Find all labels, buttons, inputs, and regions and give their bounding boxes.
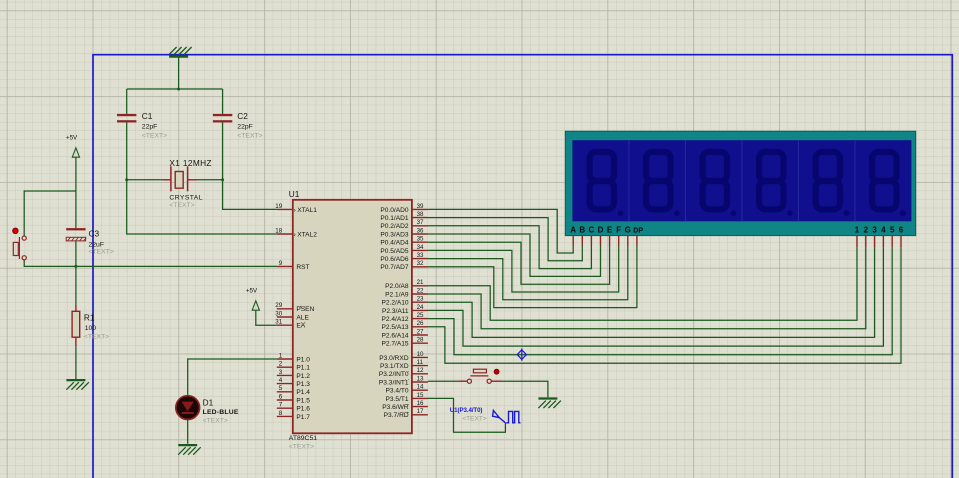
svg-text:RST: RST	[296, 264, 309, 271]
svg-text:AT89C51: AT89C51	[289, 435, 317, 442]
svg-text:CRYSTAL: CRYSTAL	[169, 195, 203, 202]
svg-text:P0.0/AD0: P0.0/AD0	[380, 207, 409, 214]
svg-text:<TEXT>: <TEXT>	[89, 249, 114, 256]
svg-text:U1(P3.4/T0): U1(P3.4/T0)	[450, 407, 483, 414]
svg-text:B: B	[579, 226, 585, 235]
svg-text:P3.3/INT1: P3.3/INT1	[379, 379, 409, 386]
svg-text:31: 31	[275, 319, 282, 326]
wire P0.1 to display segment B	[428, 218, 582, 261]
svg-text:P2.3/A11: P2.3/A11	[382, 308, 409, 315]
U1 left pin lines	[277, 209, 293, 416]
svg-text:P2.2/A10: P2.2/A10	[381, 300, 408, 307]
junction	[74, 265, 77, 268]
svg-text:P2.5/A13: P2.5/A13	[381, 324, 408, 331]
wire button SW2 to ground	[502, 381, 548, 397]
svg-text:11: 11	[417, 359, 424, 366]
svg-text:26: 26	[417, 320, 424, 327]
wire ground stem to C1/C2 net	[178, 57, 180, 90]
LED D1	[176, 396, 200, 420]
wire crystal right lead	[198, 179, 223, 181]
svg-text:19: 19	[275, 203, 282, 210]
wire LED to ground	[187, 420, 189, 444]
wire P0.3 to display segment D	[428, 234, 601, 276]
svg-text:27: 27	[417, 328, 424, 335]
svg-text:P1.0: P1.0	[296, 356, 310, 363]
svg-text:16: 16	[417, 400, 424, 407]
display digit 5 segments	[816, 152, 840, 210]
svg-text:P0.1/AD1: P0.1/AD1	[380, 215, 409, 222]
junction	[177, 88, 180, 91]
crystal X1	[162, 166, 197, 191]
svg-text:P3.6/WR: P3.6/WR	[382, 404, 409, 411]
wire C3 bottom to RST/R1	[75, 242, 77, 306]
svg-text:+5V: +5V	[66, 134, 78, 141]
7-segment display module (6 digit)	[565, 131, 915, 235]
svg-text:P3.2/INT0: P3.2/INT0	[379, 371, 409, 378]
wire P2.2 to display digit 3	[428, 247, 875, 337]
svg-text:P0.2/AD2: P0.2/AD2	[380, 223, 409, 230]
svg-text:1: 1	[279, 352, 283, 359]
wire P2.1 to display digit 2	[428, 247, 866, 328]
svg-text:P2.1/A9: P2.1/A9	[385, 291, 409, 298]
svg-text:<TEXT>: <TEXT>	[237, 132, 262, 139]
power +5V	[246, 287, 259, 310]
svg-text:C: C	[589, 226, 595, 235]
svg-text:P3.5/T1: P3.5/T1	[386, 396, 409, 403]
svg-text:6: 6	[279, 393, 283, 400]
svg-text:2: 2	[279, 361, 283, 368]
wire XTAL1 net (C2 to U1 pin 19)	[223, 122, 277, 209]
svg-text:C3: C3	[89, 228, 100, 238]
svg-text:P0.7/AD7: P0.7/AD7	[380, 264, 409, 271]
svg-text:32: 32	[417, 260, 424, 267]
wire P0.4 to display segment E	[428, 242, 610, 284]
svg-text:15: 15	[417, 392, 424, 399]
svg-text:EA: EA	[296, 323, 305, 330]
svg-text:U1: U1	[289, 189, 300, 199]
wire P0.0 to display segment A	[428, 209, 573, 253]
svg-text:P3.4/T0: P3.4/T0	[386, 388, 409, 395]
svg-text:DP: DP	[633, 226, 643, 235]
svg-text:›: ›	[294, 207, 296, 214]
svg-text:P1.2: P1.2	[296, 373, 310, 380]
svg-text:4: 4	[279, 377, 283, 384]
ground	[66, 380, 89, 390]
capacitor C3	[66, 228, 86, 241]
svg-text:P0.4/AD4: P0.4/AD4	[380, 240, 409, 247]
wire crystal left lead	[127, 179, 163, 181]
svg-text:22: 22	[417, 287, 424, 294]
svg-text:5: 5	[890, 226, 895, 235]
svg-text:23: 23	[417, 296, 424, 303]
svg-text:4: 4	[881, 226, 886, 235]
clock generator DCLOCK	[493, 410, 521, 422]
wire XTAL2 net (C1 to U1 pin 18)	[127, 122, 277, 234]
svg-text:<TEXT>: <TEXT>	[462, 416, 486, 423]
svg-text:E: E	[607, 226, 613, 235]
svg-text:+5V: +5V	[246, 287, 258, 294]
wire P0.5 to display segment F	[428, 246, 619, 293]
svg-text:28: 28	[417, 337, 424, 344]
wire R1 to ground	[75, 346, 77, 379]
svg-text:18: 18	[275, 227, 282, 234]
svg-text:P3.1/TXD: P3.1/TXD	[380, 363, 409, 370]
svg-text:13: 13	[417, 375, 424, 382]
display segment pin stubs	[573, 236, 637, 246]
ground	[538, 399, 561, 409]
svg-text:XTAL1: XTAL1	[297, 207, 317, 214]
ground	[178, 445, 201, 455]
display digit 2 segments	[646, 152, 670, 210]
capacitor C1	[117, 114, 136, 123]
svg-text:22pF: 22pF	[237, 124, 253, 131]
svg-text:3: 3	[872, 226, 877, 235]
svg-text:LED-BLUE: LED-BLUE	[203, 409, 239, 416]
svg-text:7: 7	[279, 402, 283, 409]
svg-text:›: ›	[294, 231, 296, 238]
svg-text:P3.0/RXD: P3.0/RXD	[379, 355, 409, 362]
svg-text:22uF: 22uF	[89, 241, 105, 248]
svg-text:P2.7/A15: P2.7/A15	[381, 341, 408, 348]
svg-text:P2.6/A14: P2.6/A14	[381, 332, 408, 339]
wire C2 top lead	[222, 89, 224, 114]
push button SW2 (INT1)	[458, 369, 502, 383]
svg-text:37: 37	[417, 219, 424, 226]
wire P2.0 to display digit 1	[428, 247, 857, 320]
display digit pin stubs	[857, 236, 901, 248]
svg-text:<TEXT>: <TEXT>	[203, 417, 228, 424]
svg-text:P0.6/AD6: P0.6/AD6	[380, 256, 409, 263]
svg-text:36: 36	[417, 227, 424, 234]
svg-text:6: 6	[899, 226, 904, 235]
svg-text:8: 8	[279, 410, 283, 417]
svg-text:25: 25	[417, 312, 424, 319]
display digit 6 segments	[872, 152, 896, 210]
svg-text:12: 12	[417, 367, 424, 374]
display segment pin letters ABCDEFG DP	[570, 226, 643, 235]
svg-text:R1: R1	[84, 312, 95, 322]
svg-text:XTAL2: XTAL2	[297, 231, 317, 238]
svg-text:P1.4: P1.4	[296, 389, 310, 396]
svg-text:PSEN: PSEN	[296, 306, 314, 313]
display digit separators	[629, 140, 855, 221]
wire P2.5 to display digit 6	[428, 247, 901, 363]
svg-text:22pF: 22pF	[142, 124, 158, 131]
wire +5V to EA pin 31	[256, 310, 277, 325]
svg-text:21: 21	[417, 279, 424, 286]
junction	[221, 178, 224, 181]
svg-text:<TEXT>: <TEXT>	[142, 132, 167, 139]
wire P0.7 to display segment DP	[428, 246, 637, 308]
U1 right pin numbers	[417, 203, 424, 415]
ground	[169, 47, 192, 57]
svg-text:A: A	[570, 226, 576, 235]
capacitor C2	[213, 114, 232, 123]
svg-text:P3.7/RD: P3.7/RD	[384, 412, 409, 419]
svg-text:33: 33	[417, 252, 424, 259]
svg-text:P2.0/A8: P2.0/A8	[385, 283, 409, 290]
svg-text:C2: C2	[237, 111, 248, 121]
wire P2.4 to display digit 5	[428, 247, 892, 354]
svg-text:3: 3	[279, 369, 283, 376]
svg-text:39: 39	[417, 203, 424, 210]
svg-text:<TEXT>: <TEXT>	[289, 444, 314, 451]
svg-text:G: G	[625, 226, 631, 235]
push button SW1 (reset)	[13, 228, 27, 260]
svg-text:P0.3/AD3: P0.3/AD3	[380, 231, 409, 238]
U1 left pin labels	[294, 207, 318, 421]
node marker (blue diamond)	[517, 348, 526, 360]
wire C1 top lead	[126, 89, 128, 114]
op-amp U1 AT89C51 body	[293, 200, 412, 433]
U1 right pin lines	[412, 209, 428, 414]
display digit 4 segments	[759, 152, 783, 210]
svg-text:14: 14	[417, 384, 424, 391]
wire P2.3 to display digit 4	[428, 247, 884, 346]
svg-text:P1.5: P1.5	[296, 397, 310, 404]
svg-text:P1.3: P1.3	[296, 381, 310, 388]
svg-text:9: 9	[279, 260, 283, 267]
power +5V	[66, 134, 79, 157]
svg-text:35: 35	[417, 236, 424, 243]
U1 right pin labels	[379, 207, 409, 419]
svg-text:100: 100	[85, 325, 97, 332]
svg-text:X1 12MHZ: X1 12MHZ	[169, 158, 211, 168]
display digit 1 segments	[590, 152, 614, 210]
wire RST net to U1 pin 9	[24, 260, 277, 266]
svg-text:D: D	[598, 226, 604, 235]
svg-text:38: 38	[417, 211, 424, 218]
wire P0.6 to display segment G	[428, 246, 628, 300]
svg-text:P1.7: P1.7	[296, 414, 310, 421]
svg-text:30: 30	[275, 310, 282, 317]
svg-text:C1: C1	[142, 111, 153, 121]
svg-text:P0.5/AD5: P0.5/AD5	[380, 248, 409, 255]
wire P3.5 to clock generator	[428, 398, 506, 432]
junction	[125, 178, 128, 181]
U1 left pin numbers	[275, 203, 282, 417]
wire branch to reset button	[24, 191, 76, 236]
display digit pin numbers 123456	[855, 226, 904, 235]
svg-text:34: 34	[417, 244, 424, 251]
svg-text:P2.4/A12: P2.4/A12	[381, 316, 408, 323]
wire P1.0 to LED D1	[188, 359, 277, 395]
svg-text:P1.6: P1.6	[296, 406, 310, 413]
svg-text:<TEXT>: <TEXT>	[169, 202, 194, 209]
display digit 3 segments	[703, 152, 727, 210]
svg-text:F: F	[616, 226, 621, 235]
svg-text:29: 29	[275, 302, 282, 309]
wire P3.3/INT1 to button SW2	[428, 380, 459, 382]
svg-text:17: 17	[417, 408, 424, 415]
svg-text:2: 2	[864, 226, 869, 235]
svg-text:ALE: ALE	[296, 314, 309, 321]
svg-text:P1.1: P1.1	[296, 365, 310, 372]
wire P0.2 to display segment C	[428, 226, 592, 269]
wire +5V to C3	[75, 157, 77, 228]
svg-text:<TEXT>: <TEXT>	[84, 334, 109, 341]
svg-text:24: 24	[417, 304, 424, 311]
svg-text:10: 10	[417, 351, 424, 358]
wire C1-C2 top bus	[127, 88, 223, 90]
resistor R1	[72, 305, 80, 346]
svg-text:5: 5	[279, 385, 283, 392]
svg-text:1: 1	[855, 226, 860, 235]
svg-text:D1: D1	[203, 397, 214, 407]
